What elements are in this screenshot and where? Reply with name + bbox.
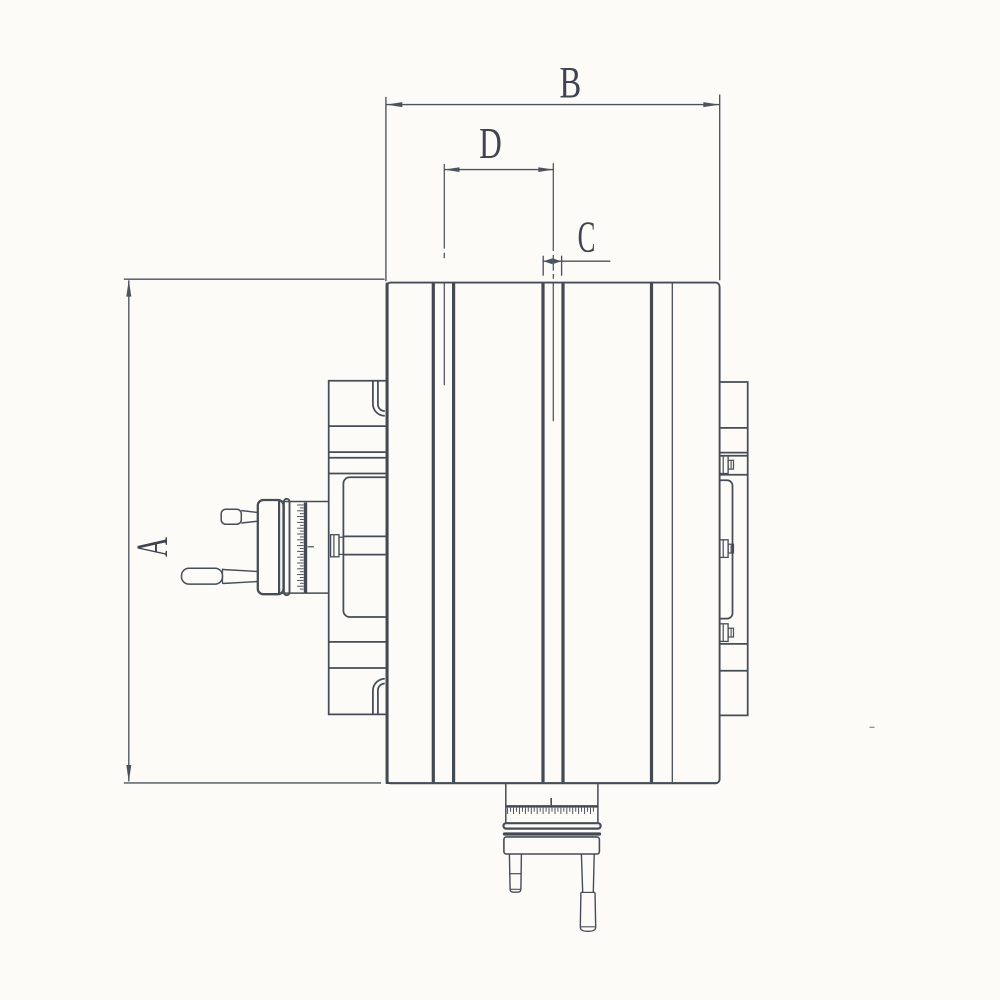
svg-text:B: B — [559, 58, 581, 107]
svg-text:A: A — [128, 537, 177, 557]
svg-text:D: D — [479, 120, 501, 169]
svg-text:C: C — [578, 211, 596, 261]
